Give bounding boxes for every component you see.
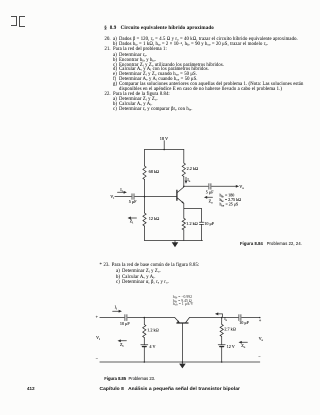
- wire 1.2k to bottom rail: [183, 230, 185, 241]
- wire Vi to input cap: [115, 196, 131, 198]
- junction 1.2k node: [144, 317, 146, 319]
- svg-text:+: +: [259, 318, 262, 323]
- top wire output cap to terminal: [242, 317, 260, 319]
- arrow Zo (pointing left): [206, 196, 213, 198]
- wire emitter down to node: [183, 203, 185, 208]
- wire collector node to output cap: [184, 185, 208, 187]
- svg-text:1.2 kΩ: 1.2 kΩ: [147, 328, 159, 333]
- wire 10uF cap to bottom rail: [201, 225, 203, 241]
- svg-text:+: +: [96, 314, 99, 319]
- svg-text:Ii: Ii: [115, 305, 118, 311]
- wire bypass branch down to cap: [201, 209, 203, 223]
- supply stub 18 V: [163, 141, 165, 150]
- arrow Io (downward beside collector wire): [185, 177, 187, 182]
- capacitor 5 uF output plate right: [210, 184, 212, 190]
- svg-text:Io: Io: [224, 316, 227, 322]
- arrow Ii: [118, 191, 125, 193]
- capacitor 10 uF output plate left: [238, 315, 240, 321]
- arrow Zi (pointing left): [130, 217, 137, 219]
- svg-text:12 V: 12 V: [227, 344, 235, 349]
- top wire cap to emitter: [128, 317, 175, 319]
- svg-text:2.7 kΩ: 2.7 kΩ: [224, 327, 236, 332]
- wire emitter node to bypass branch: [184, 208, 202, 210]
- top wire input segment: [100, 317, 124, 319]
- base wire to ground rail: [181, 324, 183, 362]
- transistor collector lead: [177, 187, 184, 193]
- junction collector/output node: [183, 186, 185, 188]
- resistor 1.2 kOhm: [182, 218, 185, 230]
- arrow Zi (pointing left): [120, 340, 127, 342]
- junction bottom base: [182, 361, 184, 363]
- ground symbol: [181, 362, 183, 364]
- capacitor 5 uF input plate left: [131, 194, 133, 200]
- resistor 2.7 kOhm: [220, 324, 223, 336]
- capacitor 5 uF output plate left: [208, 184, 210, 190]
- transistor base bar: [177, 322, 188, 324]
- capacitor 10 uF plate bottom: [199, 223, 203, 225]
- wire node down to 2.7k: [221, 318, 223, 325]
- bottom rail: [100, 361, 260, 363]
- arrow Zo (pointing left): [241, 341, 248, 343]
- bottom rail: [145, 240, 203, 242]
- svg-text:Zo: Zo: [241, 343, 246, 349]
- wire input cap to base: [135, 196, 177, 198]
- wire top rail to 2.2k: [183, 150, 185, 164]
- wire node down to 1.2k: [143, 318, 145, 325]
- junction bottom 2.7k: [221, 361, 223, 363]
- top wire collector to output node: [189, 317, 238, 319]
- arrow Ii: [113, 310, 120, 312]
- svg-text:Zi: Zi: [120, 342, 124, 348]
- junction 2.7k node: [221, 317, 223, 319]
- svg-text:Vo: Vo: [259, 336, 264, 342]
- ground symbol: [174, 241, 176, 243]
- junction bottom 1.2k: [144, 361, 146, 363]
- battery 4 V long plate: [141, 344, 148, 346]
- wire 1.2k to 4V battery: [143, 338, 145, 345]
- resistor 12 kOhm: [143, 213, 146, 226]
- wire output cap to Vo with arrow: [212, 185, 237, 187]
- wire 2.7k to 12V battery: [221, 337, 223, 345]
- transistor collector lead: [186, 318, 190, 323]
- resistor 68 kOhm: [143, 166, 146, 179]
- transistor emitter lead with arrow: [175, 318, 179, 323]
- wire 68k to base node: [144, 180, 146, 214]
- wire emitter node down to 1.2k: [183, 209, 185, 219]
- resistor 1.2 kOhm: [143, 325, 146, 338]
- svg-text:10 μF: 10 μF: [120, 321, 130, 326]
- capacitor 10 uF output plate right: [240, 315, 242, 321]
- capacitor 5 uF input plate right: [133, 194, 135, 200]
- registration mark left bracket: [11, 16, 17, 26]
- junction base node: [144, 196, 146, 198]
- transistor emitter lead with arrow: [177, 198, 184, 204]
- registration mark right bracket: [19, 16, 26, 26]
- battery 12 V long plate: [218, 344, 225, 346]
- transistor Q bar: [176, 190, 178, 200]
- arrow Io (bent, pointing left): [221, 314, 223, 317]
- resistor 2.2 kOhm: [182, 163, 185, 176]
- capacitor 10 uF input plate left: [124, 315, 126, 321]
- battery 4 V short plate: [143, 346, 147, 348]
- capacitor 10 uF input plate right: [126, 315, 128, 321]
- top rail: [145, 149, 184, 151]
- junction supply/top rail: [163, 149, 165, 151]
- svg-text:4 V: 4 V: [149, 344, 155, 349]
- battery 12 V short plate: [220, 346, 224, 348]
- svg-text:Vi: Vi: [96, 335, 100, 341]
- wire 12V battery to bottom rail: [221, 347, 223, 362]
- wire 2.2k to collector node: [183, 177, 185, 187]
- svg-text:−: −: [96, 356, 99, 361]
- output terminal dot: [259, 317, 260, 318]
- wire 12k to bottom rail: [144, 226, 146, 241]
- svg-text:−: −: [258, 354, 261, 359]
- capacitor 10 uF plate top: [199, 221, 203, 223]
- wire top rail to 68k: [144, 150, 146, 167]
- wire 4V battery to bottom rail: [143, 347, 145, 362]
